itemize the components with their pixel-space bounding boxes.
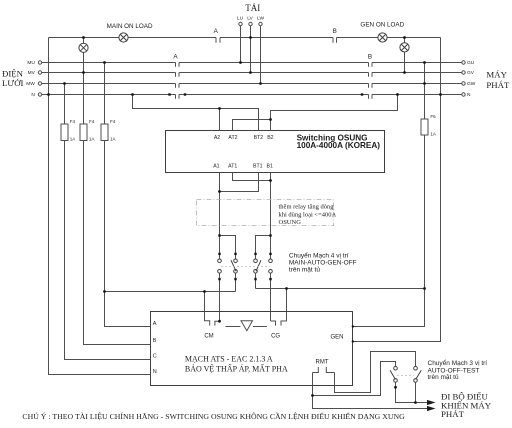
svg-text:Chuyển Mạch 3 vị trí: Chuyển Mạch 3 vị trí — [428, 359, 488, 367]
svg-text:A: A — [153, 321, 157, 327]
svg-text:AT2: AT2 — [228, 135, 237, 141]
svg-text:N: N — [31, 92, 35, 98]
svg-text:trên mặt tủ: trên mặt tủ — [289, 265, 320, 273]
svg-text:GU: GU — [467, 60, 475, 66]
svg-text:A2: A2 — [214, 135, 220, 141]
svg-text:trên mặt tủ: trên mặt tủ — [428, 373, 459, 381]
svg-text:B1: B1 — [267, 164, 273, 170]
svg-text:AT1: AT1 — [228, 164, 237, 170]
svg-text:100A-4000A (KOREA): 100A-4000A (KOREA) — [297, 141, 381, 150]
svg-text:1A: 1A — [110, 137, 116, 142]
svg-text:MU: MU — [27, 60, 35, 66]
svg-text:C: C — [153, 354, 157, 360]
svg-text:A1: A1 — [213, 164, 219, 170]
svg-text:MV: MV — [28, 70, 36, 76]
svg-text:B: B — [153, 338, 157, 344]
svg-text:LU: LU — [237, 16, 244, 22]
svg-text:CG: CG — [271, 334, 280, 340]
svg-text:N: N — [467, 92, 471, 98]
svg-text:1A: 1A — [89, 137, 95, 142]
svg-text:1A: 1A — [70, 137, 76, 142]
svg-text:LƯỚI: LƯỚI — [2, 78, 24, 88]
svg-text:1A: 1A — [430, 132, 436, 137]
svg-text:CHÚ Ý : THEO TÀI LIỆU CHÍNH HÃ: CHÚ Ý : THEO TÀI LIỆU CHÍNH HÃNG - SWITC… — [22, 411, 405, 421]
svg-text:thêm relay tăng dòng: thêm relay tăng dòng — [279, 204, 335, 211]
svg-text:OSUNG: OSUNG — [279, 219, 302, 226]
svg-text:F4: F4 — [110, 119, 116, 124]
svg-text:PHÁT: PHÁT — [486, 80, 510, 90]
svg-text:F6: F6 — [430, 114, 436, 119]
svg-text:F4: F4 — [89, 119, 95, 124]
svg-text:BT1: BT1 — [253, 164, 263, 170]
svg-text:GEN ON LOAD: GEN ON LOAD — [360, 22, 404, 29]
svg-text:CM: CM — [204, 334, 213, 340]
svg-text:PHÁT: PHÁT — [441, 409, 465, 419]
svg-text:B: B — [368, 54, 372, 61]
svg-text:TẢI: TẢI — [245, 3, 260, 13]
svg-text:N: N — [153, 369, 157, 375]
svg-text:GV: GV — [467, 70, 475, 76]
svg-text:LV: LV — [247, 16, 253, 22]
svg-text:GEN: GEN — [330, 335, 343, 341]
svg-text:RMT: RMT — [316, 360, 329, 366]
svg-text:BT2: BT2 — [254, 135, 264, 141]
svg-text:khi dùng loại <=400A: khi dùng loại <=400A — [279, 212, 337, 219]
svg-text:Chuyển Mạch 4 vị trí: Chuyển Mạch 4 vị trí — [289, 252, 349, 260]
svg-text:LW: LW — [257, 16, 264, 22]
svg-text:MW: MW — [26, 81, 35, 87]
svg-text:BẢO VỆ THẤP ÁP, MẤT PHA: BẢO VỆ THẤP ÁP, MẤT PHA — [185, 363, 288, 373]
svg-text:MAIN ON LOAD: MAIN ON LOAD — [107, 23, 153, 30]
svg-text:GW: GW — [467, 81, 476, 87]
svg-text:B: B — [333, 28, 337, 35]
svg-text:F4: F4 — [70, 119, 76, 124]
svg-text:MẠCH ATS - EAC 2.1.3 A: MẠCH ATS - EAC 2.1.3 A — [185, 354, 273, 363]
svg-text:MÁY: MÁY — [486, 70, 507, 80]
svg-text:B2: B2 — [267, 135, 273, 141]
